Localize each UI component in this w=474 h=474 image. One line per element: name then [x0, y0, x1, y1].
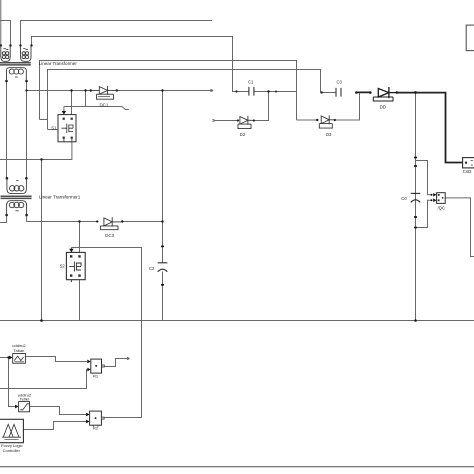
arrow into S2 gate — [69, 249, 73, 253]
wire D2 row — [213, 92, 269, 122]
wire B long top — [21, 21, 213, 46]
wire left leg to bus — [41, 160, 43, 321]
svg-text:S1: S1 — [51, 126, 57, 131]
wire transformer secondary left drop — [6, 81, 8, 178]
arrow into QC input 1 — [433, 193, 436, 197]
svg-text:Controller: Controller — [3, 448, 21, 453]
node tick at x416 y158 — [414, 157, 417, 159]
arrow into R2 input 1 — [86, 413, 89, 417]
wire triangle to R1 — [25, 357, 87, 362]
wire T1 secondary left exit — [0, 215, 7, 223]
node tick at x416 y217 — [414, 216, 417, 218]
transformer T1 primary winding — [7, 178, 27, 193]
node T1 secondary terminal a — [5, 214, 8, 217]
node D2 anode port — [237, 119, 239, 121]
block R2 relational operator — [90, 411, 105, 427]
svg-text:S2: S2 — [60, 264, 66, 269]
junction C3 right / D3 riser top — [355, 91, 358, 94]
junction S2 drain on DC3 rail — [78, 220, 80, 222]
svg-text:Taban: Taban — [14, 348, 25, 353]
svg-text:D3: D3 — [326, 132, 332, 137]
block S1 — [58, 115, 76, 142]
wire S1 left step1 — [40, 119, 48, 121]
wire S1 left step2 — [48, 129, 59, 131]
svg-text:R1: R1 — [93, 374, 99, 379]
block Cst2 — [463, 158, 474, 168]
transformer T0 winding 2 — [21, 46, 32, 62]
wire S2 source to bus — [79, 280, 81, 321]
diode D3 — [319, 115, 333, 128]
capacitor C3 — [336, 88, 341, 97]
diode DC1 — [91, 86, 117, 99]
wire top-left vertical from edge — [0, 0, 2, 46]
wire S1 gate rail — [64, 91, 129, 112]
node T1 primary terminal a — [6, 177, 9, 180]
svg-text:DD: DD — [380, 105, 386, 110]
junction secondary-b to DC1 rail — [25, 89, 27, 91]
wire saturation to R2 in1 — [30, 407, 86, 415]
junction S1 source / left leg — [40, 158, 42, 160]
wire long rail y69.5 — [48, 70, 337, 130]
junction C0 leg on bus — [414, 319, 417, 322]
arrow into saturation input — [15, 405, 18, 409]
junction C1 rail end dot — [275, 91, 277, 93]
wire A to winding terminal 2 — [0, 21, 11, 46]
arrow into R2 input 2 — [86, 420, 89, 424]
svg-text:Tetikl: Tetikl — [20, 397, 29, 402]
wire QC output — [445, 198, 474, 257]
block triangle source — [13, 354, 26, 364]
wire C0 measurement bracket top — [416, 161, 432, 195]
transformer T1 secondary winding — [7, 201, 27, 215]
thick DD output path — [356, 92, 462, 162]
wire R1 output open end — [104, 357, 129, 366]
node T0 winding2 terminal a — [19, 44, 21, 46]
diode DD — [373, 87, 396, 101]
svg-text:R2: R2 — [93, 425, 99, 430]
capacitor C0 — [411, 193, 421, 202]
svg-text:DC1: DC1 — [100, 102, 109, 107]
wire D3 row — [297, 93, 360, 121]
wire fuzzy to R2 in2 — [24, 422, 87, 430]
wire S2 gate stub — [70, 248, 72, 250]
diode DC3 — [101, 217, 122, 230]
wire S1 drain riser — [71, 91, 73, 115]
junction C1 left node — [235, 90, 237, 92]
wire DC1 cathode rail to open end — [117, 89, 214, 91]
svg-text:C2: C2 — [149, 266, 155, 271]
capacitor C1 — [249, 87, 254, 96]
wire C1 row to right junction — [237, 91, 297, 93]
wire S1 source — [0, 142, 72, 160]
svg-text:C0: C0 — [401, 196, 407, 201]
node tick at x162 y246 — [161, 246, 164, 248]
wire saturation input drop — [9, 358, 17, 407]
wire R1 in2 rail — [0, 370, 87, 389]
capacitor C2 — [158, 263, 168, 272]
wire long rail y60.5 — [40, 61, 297, 121]
block saturation — [19, 402, 30, 412]
svg-text:Linear Transformer: Linear Transformer — [39, 61, 78, 66]
wire T1 secondary right DC3 rail — [27, 215, 163, 222]
wire triangle source input — [0, 357, 11, 359]
svg-text:Cst2: Cst2 — [463, 169, 472, 174]
arrowheads — [9, 111, 436, 423]
svg-text:C3: C3 — [337, 79, 343, 84]
block top-right cut — [466, 25, 474, 50]
junction carrier input node — [7, 356, 9, 358]
transformer T1 core — [1, 196, 32, 198]
wire transformer secondary right drop + DC1 anode rail — [27, 81, 91, 178]
arrow into triangle source input — [9, 356, 12, 360]
svg-text:DC3: DC3 — [105, 233, 114, 238]
svg-text:Linear Transformer1: Linear Transformer1 — [39, 194, 81, 199]
junction S1 drain on DC1 rail — [70, 89, 72, 91]
node DC3 anode port — [96, 220, 98, 222]
arrow into S1 gate — [62, 111, 66, 115]
svg-text:C1: C1 — [248, 80, 254, 85]
wire main bottom bus — [0, 320, 474, 322]
junction C3 left corner dot — [321, 91, 323, 93]
transformer T0 secondary winding — [6, 68, 26, 81]
transformer T0 winding 1 — [1, 46, 10, 62]
node DC1 anode port — [90, 89, 92, 91]
block fuzzy logic controller — [0, 419, 23, 442]
node T0 winding1 terminal a — [0, 44, 2, 46]
svg-text:D2: D2 — [240, 132, 246, 137]
diode D2 — [238, 116, 252, 129]
wire DD vertical main — [415, 93, 417, 321]
bottom rule — [0, 466, 474, 468]
block S2 — [66, 252, 85, 282]
node T0 secondary terminal a — [5, 80, 8, 83]
wire S2 gate rail from R2 riser — [71, 248, 141, 418]
junction C2 riser on DC1 rail — [161, 89, 163, 91]
block R1 relational operator — [91, 359, 104, 373]
wire C second top — [32, 37, 237, 92]
wire S2 drain riser — [79, 222, 81, 253]
wire C0 measurement bracket bottom — [416, 200, 432, 227]
block QC voltage measurement — [437, 193, 446, 204]
svg-text:/QC: /QC — [438, 206, 445, 211]
transformer T0 core — [0, 63, 31, 65]
arrow into R1 input 2 — [87, 368, 90, 372]
arrow into R1 input 1 — [87, 360, 90, 364]
arrow into QC input 2 — [433, 198, 436, 202]
wire C2 riser — [162, 91, 164, 321]
node DD cathode port — [396, 91, 399, 94]
node D3 anode port — [316, 119, 318, 121]
